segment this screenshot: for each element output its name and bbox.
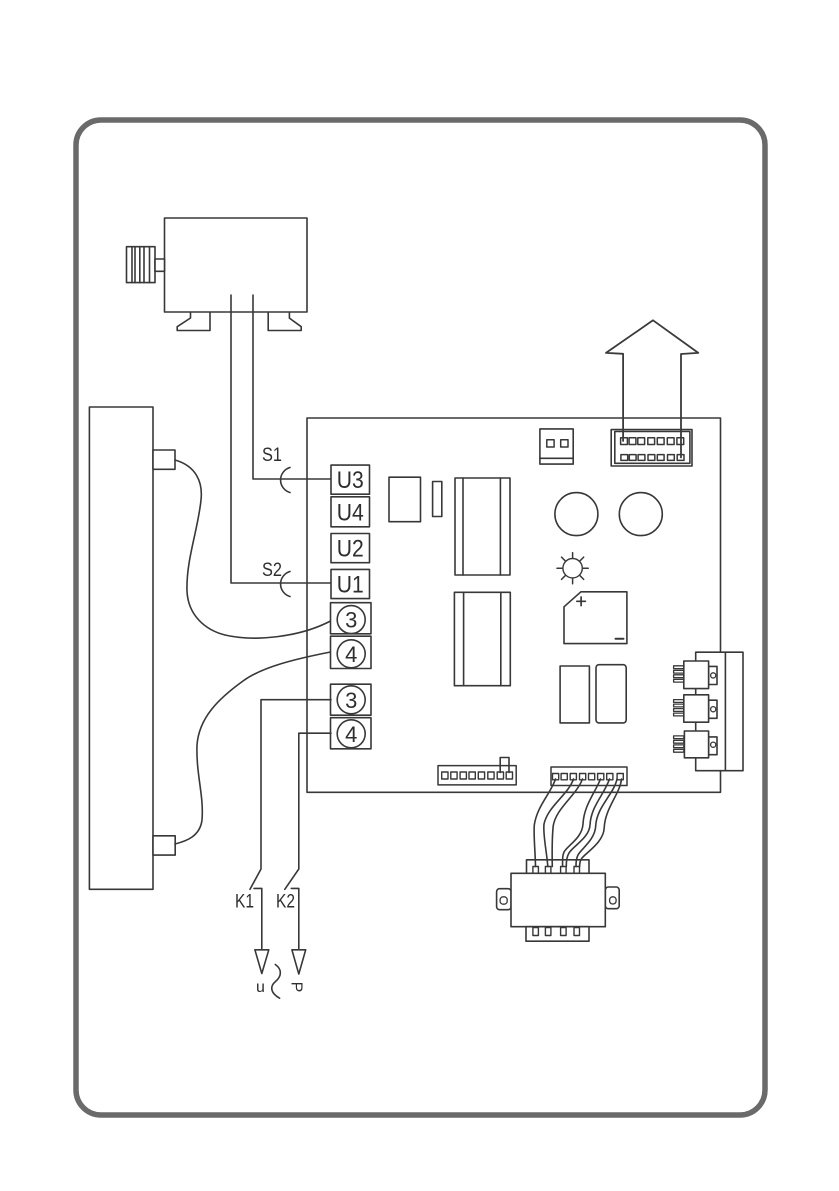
- svg-text:u: u: [256, 979, 265, 996]
- svg-text:K2: K2: [276, 892, 295, 913]
- svg-text:U2: U2: [337, 536, 364, 563]
- svg-text:U3: U3: [337, 467, 364, 494]
- svg-text:S2: S2: [262, 560, 282, 581]
- svg-text:S1: S1: [262, 445, 282, 466]
- svg-text:3: 3: [345, 688, 357, 713]
- svg-text:4: 4: [345, 722, 357, 747]
- svg-text:U1: U1: [337, 572, 364, 599]
- svg-text:K1: K1: [235, 892, 254, 913]
- svg-text:U4: U4: [337, 500, 364, 527]
- svg-text:P: P: [288, 982, 305, 993]
- svg-text:3: 3: [345, 608, 357, 633]
- svg-text:4: 4: [345, 642, 357, 667]
